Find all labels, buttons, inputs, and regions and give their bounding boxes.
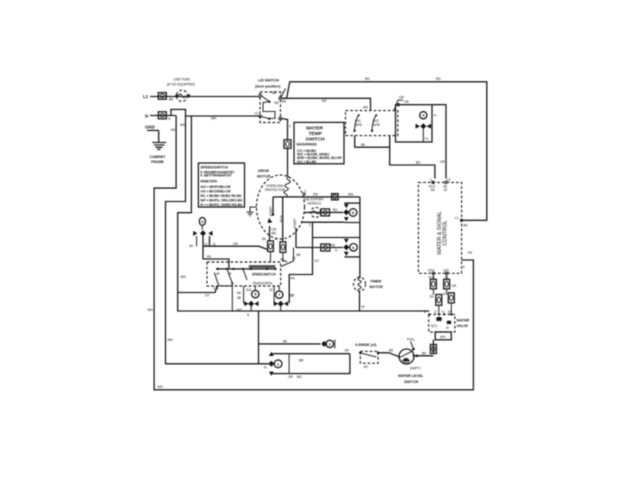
svg-text:WH: WH [168, 338, 174, 342]
svg-text:(IF SO EQUIPPED): (IF SO EQUIPPED) [167, 82, 195, 86]
svg-text:13: 13 [255, 112, 259, 116]
svg-text:SPEED/SWITCH: SPEED/SWITCH [201, 166, 229, 170]
svg-text:F. ABT/TRH/BARTEY: F. ABT/TRH/BARTEY [201, 174, 233, 178]
svg-text:RD: RD [331, 244, 336, 248]
svg-text:MOTOR: MOTOR [370, 285, 384, 289]
svg-text:11A: 11A [246, 288, 252, 292]
svg-text:VALVE: VALVE [457, 324, 469, 328]
svg-text:EMPTY: EMPTY [410, 367, 422, 371]
svg-text:(9: (9 [448, 310, 451, 314]
svg-text:H/C = BU-BK: H/C = BU-BK [297, 160, 317, 164]
svg-text:A/S = BK/PU/BU-OR: A/S = BK/PU/BU-OR [201, 185, 232, 189]
svg-text:RWB/72PH: RWB/72PH [201, 180, 218, 184]
svg-text:#/A = BK/OR/BU-OR: #/A = BK/OR/BU-OR [201, 190, 232, 194]
svg-text:2W: 2W [274, 101, 279, 105]
svg-text:WATER: WATER [306, 126, 324, 132]
svg-text:(door position): (door position) [255, 85, 281, 89]
svg-text:A8: A8 [431, 188, 435, 192]
svg-text:BU: BU [416, 161, 421, 165]
svg-text:VIO: VIO [237, 308, 243, 312]
svg-text:5(Y): 5(Y) [431, 324, 437, 328]
svg-text:RD: RD [272, 232, 277, 236]
svg-text:3B: 3B [237, 296, 241, 300]
svg-text:10: 10 [269, 288, 273, 292]
svg-text:SPEED: SPEED [252, 273, 264, 277]
svg-text:S: S [247, 313, 249, 317]
svg-text:13: 13 [447, 178, 451, 182]
svg-text:RD: RD [322, 99, 327, 103]
svg-text:13: 13 [204, 243, 208, 247]
svg-text:1: 1 [430, 178, 432, 182]
svg-text:W: W [444, 188, 447, 192]
svg-text:RD: RD [365, 77, 370, 81]
svg-text:M: M [446, 326, 449, 330]
svg-text:8: 8 [275, 237, 277, 241]
svg-text:CONTROL: CONTROL [443, 220, 449, 245]
svg-text:WH: WH [181, 275, 187, 279]
svg-text:R/L = BK/BK OR/BU RD-BK: R/L = BK/BK OR/BU RD-BK [201, 194, 243, 198]
svg-text:DRIVE: DRIVE [258, 169, 270, 173]
svg-text:BU: BU [297, 375, 302, 379]
svg-text:BU: BU [333, 208, 338, 212]
svg-text:WASH/RINSE: WASH/RINSE [297, 143, 317, 147]
svg-text:WH: WH [158, 385, 164, 389]
svg-text:LINE FUSE: LINE FUSE [174, 77, 190, 81]
svg-text:WH: WH [348, 193, 354, 197]
svg-text:(1: (1 [434, 310, 437, 314]
svg-text:START: START [293, 218, 297, 228]
svg-text:LID SWITCH: LID SWITCH [258, 79, 279, 83]
svg-text:WATER: WATER [457, 319, 470, 323]
svg-text:SWITCH: SWITCH [404, 380, 419, 384]
svg-text:N: N [145, 114, 148, 119]
svg-text:BR: BR [299, 359, 304, 363]
svg-text:MODELS: MODELS [308, 202, 321, 206]
svg-text:WH: WH [171, 128, 177, 132]
svg-text:W/W: W/W [373, 123, 380, 127]
svg-text:2: 2 [309, 223, 311, 227]
svg-text:WH: WH [148, 308, 154, 312]
svg-text:W: W [362, 305, 365, 309]
svg-text:WH: WH [211, 117, 217, 121]
svg-text:WH: WH [180, 123, 186, 127]
svg-text:4F: 4F [228, 272, 232, 276]
svg-text:OR: OR [233, 242, 238, 246]
svg-text:R + = BK/PU, OH/RD RD-BK: R + = BK/PU, OH/RD RD-BK [201, 203, 243, 207]
svg-text:OR: OR [399, 96, 404, 100]
svg-text:GND: GND [145, 125, 155, 130]
svg-text:FRAME: FRAME [151, 160, 164, 164]
svg-text:PROTECTOR: PROTECTOR [265, 188, 286, 192]
svg-text:X-RINSE (of): X-RINSE (of) [355, 343, 377, 347]
svg-text:WH: WH [440, 335, 446, 339]
svg-text:MOTOR: MOTOR [257, 175, 271, 179]
svg-text:GN1: GN1 [428, 269, 435, 273]
svg-text:h: h [463, 265, 465, 269]
svg-text:8: 8 [424, 310, 426, 314]
svg-text:RUN: RUN [279, 215, 283, 223]
svg-text:2W: 2W [313, 193, 318, 197]
svg-text:11: 11 [213, 243, 217, 247]
svg-text:SWITCH: SWITCH [263, 273, 276, 277]
svg-text:+1: +1 [441, 310, 445, 314]
svg-text:WATER LEVEL: WATER LEVEL [398, 374, 424, 378]
svg-text:N/F = BK/PU, OR/LIGRO-BK: N/F = BK/PU, OR/LIGRO-BK [201, 199, 244, 203]
svg-text:L1: L1 [455, 216, 459, 220]
svg-text:L1: L1 [280, 91, 284, 95]
svg-text:L1: L1 [143, 94, 149, 99]
svg-text:OR: OR [404, 100, 409, 104]
svg-text:START: START [269, 206, 273, 216]
svg-text:T1: T1 [425, 137, 429, 141]
svg-text:CABINET: CABINET [150, 155, 167, 159]
svg-text:OR: OR [288, 375, 293, 379]
svg-text:OR: OR [452, 284, 457, 288]
svg-text:12A: 12A [213, 287, 220, 291]
svg-text:32: 32 [290, 294, 294, 298]
svg-text:TEMP: TEMP [309, 131, 323, 137]
svg-text:4F: 4F [216, 272, 220, 276]
svg-text:7: 7 [278, 292, 280, 297]
svg-text:W/W: W/W [355, 123, 362, 127]
svg-text:4W: 4W [363, 106, 368, 110]
svg-text:OR: OR [440, 160, 445, 164]
svg-text:RD: RD [436, 77, 441, 81]
svg-text:TIMER: TIMER [370, 280, 382, 284]
svg-text:1(X): 1(X) [443, 269, 449, 273]
svg-text:FULL: FULL [407, 338, 415, 342]
svg-text:RN/AGI/SPIN: RN/AGI/SPIN [253, 282, 273, 286]
